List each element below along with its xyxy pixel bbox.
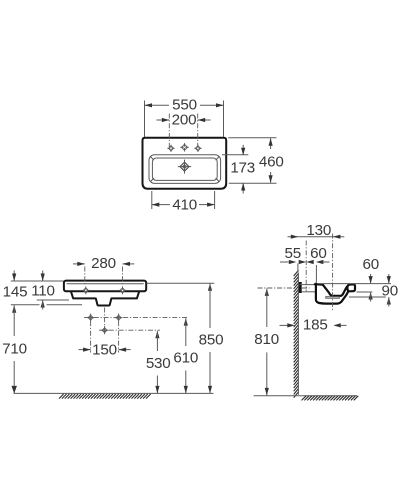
dimension 150: tail right xyxy=(119,349,131,351)
side view: fixing centreline vertical xyxy=(305,241,307,292)
dimension 410: line left segment xyxy=(152,204,170,206)
dimension 280: ext centreline right xyxy=(122,267,124,286)
dimension 90: arrow down tail xyxy=(388,274,390,283)
dimension 55: tail left xyxy=(280,261,289,263)
top view: centre tap hole xyxy=(182,144,188,150)
dimension 150: tail left xyxy=(79,349,91,351)
front view: floor hatching xyxy=(59,394,151,399)
side view: fixing bracket xyxy=(299,282,302,293)
side view: fixing height centreline xyxy=(258,287,294,289)
dimension 145: arrow down tail xyxy=(13,271,15,281)
dimension 60 right: arrow down xyxy=(369,276,373,284)
dimension 710: arrow down xyxy=(11,386,17,394)
dimension 200: tail left xyxy=(157,119,170,121)
front view: bolt cross left xyxy=(88,315,93,320)
dimension 410: extension left xyxy=(151,191,153,209)
dimension 185: tail right xyxy=(340,324,347,326)
dimension 850: line upper xyxy=(209,283,211,328)
dimension 60 right: arrow down tail xyxy=(370,274,372,283)
side view: basin inner bowl surface xyxy=(323,285,348,296)
dimension 173: arrow down xyxy=(241,148,245,156)
dimension 130: line xyxy=(288,236,345,238)
side view: rim bottom extension xyxy=(357,291,373,293)
dimension 810: line upper xyxy=(266,288,268,327)
dimension 550: extension line right xyxy=(223,101,225,138)
dimension 460: extension bottom xyxy=(229,182,277,184)
dimension 60 top: extension line xyxy=(315,265,317,283)
dimension 280: arrow right xyxy=(123,262,131,266)
side view: basin back wall and outer bottom xyxy=(316,284,348,304)
dimension 200: arrow right xyxy=(198,118,206,122)
side view: fixing cross horizontal xyxy=(302,287,310,289)
top view: left tap hole xyxy=(169,146,174,151)
dimension 150: ext centreline left xyxy=(90,321,92,353)
svg-text:710: 710 xyxy=(2,340,27,357)
front view: rim top inner line xyxy=(67,283,144,285)
dimension 185: arrow left xyxy=(287,323,295,327)
dimension 145: bottom reference line b xyxy=(47,304,83,306)
side view: basin top cap xyxy=(315,283,323,286)
dimension 710: arrow up xyxy=(12,305,16,313)
dimension 460: extension top xyxy=(228,137,276,139)
dimension 200: arrow left xyxy=(162,118,170,122)
top view: inner basin rim inner edge xyxy=(152,158,217,180)
dimension 550: arrow right xyxy=(216,103,224,107)
dimension 710: line upper xyxy=(13,305,15,336)
dimension 610: arrow up xyxy=(184,318,188,326)
front view: left fixing hole xyxy=(83,288,88,293)
svg-text:150: 150 xyxy=(92,341,117,358)
dimension 145: arrow down xyxy=(12,274,16,282)
front view: right fixing hole xyxy=(120,288,125,293)
dimension 173: arrow up xyxy=(241,183,245,191)
dimension 460: arrow up xyxy=(269,138,273,146)
svg-text:130: 130 xyxy=(306,222,331,239)
dimension 810: line lower xyxy=(266,353,268,396)
dimension 90: arrow up tail xyxy=(388,297,390,307)
front view: centreline horizontal upper xyxy=(84,317,188,319)
dimension 550: extension line left xyxy=(144,101,146,138)
top view: rim corner ticks xyxy=(151,157,155,161)
svg-text:610: 610 xyxy=(173,350,198,367)
dimension 173: extension top xyxy=(222,154,248,156)
dimension 410: arrow left xyxy=(152,203,160,207)
dimension 130: wall extension line xyxy=(297,264,299,273)
dimension 280: tail right xyxy=(123,263,135,265)
svg-text:410: 410 xyxy=(172,197,197,214)
front view: top edge extension left xyxy=(11,280,64,282)
dimension 280: tail left xyxy=(73,263,85,265)
svg-text:810: 810 xyxy=(254,331,279,348)
side view: top edge extension right xyxy=(319,283,392,285)
dimension 810: arrow down xyxy=(265,388,269,396)
svg-text:60: 60 xyxy=(310,245,327,262)
dimension 550: line left segment xyxy=(145,104,170,106)
dimension 90: arrow up xyxy=(387,297,391,305)
dimension 530: arrow down xyxy=(155,386,159,394)
dimension 145: bottom reference line a xyxy=(11,304,40,306)
svg-text:173: 173 xyxy=(230,159,255,176)
side view: floor line xyxy=(254,395,358,397)
dimension 60 right: arrow up tail xyxy=(370,292,372,302)
dimension 550: arrow left xyxy=(145,103,153,107)
side view: wall face line xyxy=(297,273,299,395)
svg-text:200: 200 xyxy=(172,111,197,128)
dimension 410: extension right xyxy=(214,191,216,209)
dimension 55: arrow left xyxy=(289,260,297,264)
dimension 610: line upper xyxy=(185,318,187,346)
dimension 200: ext centreline left xyxy=(168,114,170,148)
dimension 710: line lower xyxy=(13,361,15,393)
svg-text:185: 185 xyxy=(303,317,328,334)
dimension 810: arrow up xyxy=(265,288,269,296)
top view: inner basin rim outer edge xyxy=(149,155,221,184)
dimension 60 top: arrow left xyxy=(299,260,307,264)
dimension 110: arrow down tail xyxy=(42,271,44,281)
front view: bolt cross right xyxy=(116,315,121,320)
top view: drain cross ticks xyxy=(178,166,191,168)
dimension 610: line lower xyxy=(185,371,187,394)
front view: floor line xyxy=(14,392,214,394)
top view: drain outer diamond xyxy=(180,162,189,171)
dimension 130: arrow left xyxy=(291,235,299,239)
svg-text:530: 530 xyxy=(146,355,171,372)
dimension 173: arrow down tail xyxy=(242,145,244,155)
side view: fixing channel top line xyxy=(299,284,315,286)
front view: body and drain outline xyxy=(71,291,139,305)
dimension 110: arrow up xyxy=(41,300,45,308)
svg-text:55: 55 xyxy=(285,245,302,262)
side view: floor hatching xyxy=(302,396,359,401)
dimension 150: ext centreline right xyxy=(118,321,120,353)
dimension 200: ext centreline right xyxy=(197,114,199,148)
dimension 850: arrow down xyxy=(208,386,212,394)
front view: centreline horizontal lower xyxy=(99,329,160,331)
svg-text:90: 90 xyxy=(382,283,399,300)
side view: drain flange xyxy=(326,297,340,299)
svg-text:110: 110 xyxy=(31,282,55,299)
dimension 850: line lower xyxy=(209,352,211,393)
dimension 850: arrow up xyxy=(208,283,212,291)
dimension 110: arrow up tail xyxy=(42,300,44,310)
dimension 60 top: arrow right xyxy=(316,260,324,264)
front view: drain cross xyxy=(102,328,107,333)
dimension 173: arrow up tail xyxy=(242,183,244,194)
front view: top edge extension right xyxy=(146,282,214,284)
svg-text:145: 145 xyxy=(3,284,28,301)
dimension 410: line right segment xyxy=(199,204,215,206)
dimension 280: ext centreline left xyxy=(84,267,86,286)
dimension 150: arrow left xyxy=(83,348,91,352)
dimension 150: arrow right xyxy=(119,348,127,352)
dimension 460: arrow down tail xyxy=(270,172,272,183)
top view: basin outer rim (plan) xyxy=(143,138,227,189)
side view: fixing channel bottom line xyxy=(302,291,315,293)
dimension 60 top: tail right xyxy=(322,261,329,263)
side view: drain centreline vertical xyxy=(332,234,334,312)
dimension 200: tail right xyxy=(198,119,211,121)
dimension 550: line right segment xyxy=(200,104,224,106)
dimension 530: line lower xyxy=(156,376,158,394)
dimension 280: arrow left xyxy=(77,262,85,266)
dimension 460: arrow up tail xyxy=(270,138,272,149)
front view: drain centreline vertical xyxy=(104,308,106,334)
dimension 530: line upper xyxy=(156,331,158,351)
dimension 55: arrow right xyxy=(306,260,314,264)
dimension 130: arrow right xyxy=(333,235,341,239)
top view: drain inner star xyxy=(181,163,187,169)
dimension 410: arrow right xyxy=(207,203,215,207)
side view: wall hatching xyxy=(294,270,299,397)
dimension 110: arrow down xyxy=(41,274,45,282)
side view: front rolled rim loop xyxy=(347,284,355,291)
side view: apron bottom extension xyxy=(349,296,386,298)
svg-text:460: 460 xyxy=(259,153,284,170)
dimension 530: arrow up xyxy=(155,331,159,339)
front view: rim slab xyxy=(64,281,146,292)
dimension 60 right: arrow up xyxy=(369,292,373,300)
dimension 185: tail left xyxy=(280,324,289,326)
dimension 610: arrow down xyxy=(184,386,188,394)
top view: right tap hole xyxy=(195,146,200,151)
svg-text:280: 280 xyxy=(91,255,116,272)
dimension 185: arrow right xyxy=(333,323,341,327)
dimension 460: arrow down xyxy=(269,175,273,183)
svg-text:60: 60 xyxy=(363,256,380,273)
dimension 90: arrow down xyxy=(387,276,391,284)
dimension 110: bottom reference line xyxy=(37,299,69,301)
svg-text:850: 850 xyxy=(199,331,224,348)
